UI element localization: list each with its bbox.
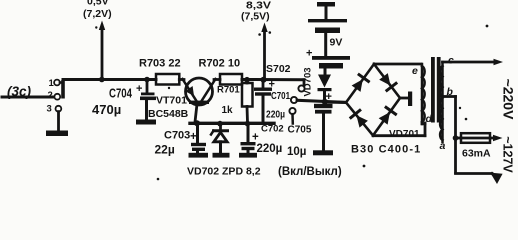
ground [57,112,60,131]
wire battery node to bridge [325,101,346,105]
transformer T1 primary winding [421,64,424,124]
svg-text:R702 10: R702 10 [199,58,241,70]
switch S702 arrow up [263,28,266,80]
svg-text:VD702 ZPD 8,2: VD702 ZPD 8,2 [187,166,261,178]
speck [486,25,489,28]
wire test point arrow up [101,26,104,80]
wire R703 to transistor [179,78,184,81]
svg-text:(7,5V): (7,5V) [241,11,270,23]
svg-text:C704: C704 [109,87,132,101]
noise dot [459,107,461,109]
wire transistor base down [195,104,197,122]
svg-text:220µ: 220µ [257,143,283,155]
node battery junction [322,99,328,105]
svg-text:S702: S702 [266,63,291,75]
svg-text:470µ: 470µ [92,102,121,117]
svg-text:B30 C400-1: B30 C400-1 [351,144,421,156]
svg-text:C703: C703 [164,130,190,142]
node junction C704 [144,77,150,83]
svg-text:c: c [448,55,454,67]
svg-text:R701: R701 [217,85,240,96]
capacitor C705 10µ [314,104,333,108]
fuse FU1 63mA [453,135,459,141]
transformer T1 secondary winding [441,62,444,142]
svg-text:2: 2 [48,90,53,101]
bridge diode upper right [379,73,390,86]
svg-text:~220V: ~220V [501,79,517,121]
switch on-off contact B [291,97,297,103]
transformer core [431,57,435,123]
svg-text:VT701: VT701 [156,95,187,107]
svg-text:(Вкл/Выкл): (Вкл/Выкл) [278,166,342,178]
wire bridge top to winding e [374,63,421,66]
capacitor C701 220µ [262,80,265,88]
wire c to 220V arrow [443,61,497,64]
wire bridge bottom to winding d [373,134,425,137]
wire rail to switch corner [303,80,306,85]
node junction to test arrow [99,77,105,83]
svg-text:+: + [252,132,259,144]
svg-text:(7,2V): (7,2V) [83,8,112,20]
diode VD703 [318,75,331,88]
wire switch B to battery node [297,100,345,102]
battery GB 9V top bar [317,2,335,7]
wire b line bottom arrow [456,172,493,175]
transistor VT701 BC548B [186,78,213,105]
wire input to pin 2 [2,96,53,99]
svg-text:a: a [440,140,446,152]
wire bridge right vertex plug bar [400,97,408,100]
wire top rail [63,78,156,81]
svg-text:VD703: VD703 [303,67,314,96]
svg-text:BC548B: BC548B [148,108,189,120]
wire b tap down [443,95,456,98]
svg-text:~127V: ~127V [501,136,515,173]
capacitor C704 470µ [146,80,149,93]
svg-text:10µ: 10µ [287,146,306,158]
node junction C701 / S702 [261,77,267,83]
svg-text:R703 22: R703 22 [139,58,181,70]
svg-text:C701: C701 [271,91,290,102]
svg-text:9V: 9V [330,37,343,49]
svg-text:3: 3 [47,104,52,115]
connector jack contact bar [61,80,65,99]
svg-text:C705: C705 [288,125,312,136]
svg-text:1k: 1k [222,105,234,116]
capacitor C703 22µ [196,123,199,142]
bridge rectifier VD701 diamond [346,64,400,136]
bridge diode upper left [352,79,363,92]
switch on-off contact C open [289,108,295,114]
switch on-off contact A [298,85,304,91]
wire rail after R702 [242,78,304,81]
svg-text:+: + [190,131,197,143]
svg-text:+: + [306,48,312,60]
bridge diode lower left [356,115,368,127]
svg-text:e: e [412,65,418,77]
svg-text:C702: C702 [261,124,284,135]
wire transistor to R702 [214,78,220,81]
node base bus [190,122,274,125]
capacitor C702 220µ [247,124,250,142]
svg-text:220µ: 220µ [266,110,285,121]
svg-text:0,5V: 0,5V [87,0,109,8]
node junction R701 [244,77,250,83]
battery cell 1 [308,19,347,22]
zener diode VD702 ZPD 8,2 [219,124,222,129]
svg-text:22µ: 22µ [155,143,175,157]
bridge diode lower right [379,112,390,125]
svg-text:63mA: 63mA [462,148,491,160]
